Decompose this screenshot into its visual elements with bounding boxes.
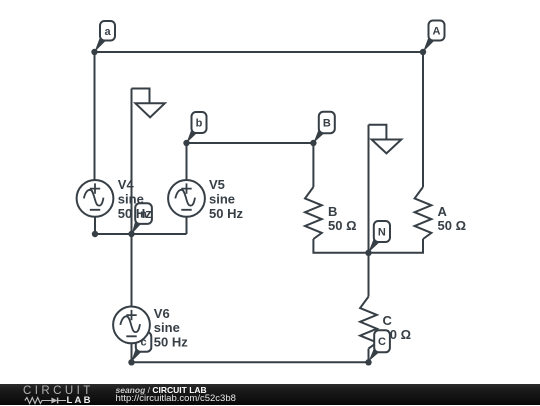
svg-text:C: C <box>383 313 393 328</box>
node flag a <box>95 21 116 52</box>
svg-text:B: B <box>323 118 331 130</box>
svg-text:sine: sine <box>209 192 235 207</box>
voltage source V6 <box>113 307 150 344</box>
junction V4-neutral <box>92 231 98 237</box>
junction n <box>128 231 134 237</box>
wire a to V4 <box>94 52 96 180</box>
ground G1 <box>132 89 165 118</box>
svg-text:sine: sine <box>118 192 144 207</box>
resistor B <box>305 187 322 239</box>
label resistor B value <box>328 204 357 233</box>
node flag N <box>368 221 390 253</box>
wire resistor C bottom <box>368 349 370 363</box>
voltage source V5 <box>168 180 205 217</box>
CircuitLab logo <box>23 385 94 397</box>
wire V6 bottom <box>131 343 133 362</box>
node flag B <box>313 112 334 143</box>
label resistor C value <box>383 313 412 342</box>
wire B to resistor B <box>312 143 314 187</box>
wire V5 bottom <box>186 217 188 234</box>
resistor A <box>415 187 432 239</box>
label V5 <box>209 177 243 221</box>
voltage source V4 <box>77 180 114 217</box>
label resistor A value <box>438 204 467 233</box>
wire neutral horizontal <box>95 233 187 235</box>
svg-text:a: a <box>104 26 111 38</box>
junction A <box>420 49 426 55</box>
node flag c <box>131 332 151 362</box>
svg-text:b: b <box>196 118 203 130</box>
junction B <box>310 140 316 146</box>
ground G2 <box>369 125 402 154</box>
wire resistor B bottom <box>313 239 368 253</box>
svg-text:50 Hz: 50 Hz <box>154 334 188 349</box>
svg-text:V5: V5 <box>209 177 225 192</box>
wire neutral to V6 <box>131 234 133 307</box>
wire b-B <box>187 142 314 144</box>
svg-text:V6: V6 <box>154 306 170 321</box>
svg-text:N: N <box>378 227 386 239</box>
wire N to resistor C <box>368 253 370 297</box>
wire b to V5 <box>186 143 188 180</box>
wire resistor A bottom <box>369 239 424 253</box>
node flag A <box>423 21 445 53</box>
node flag C <box>369 330 390 361</box>
junction N <box>365 250 371 256</box>
node flag b <box>187 112 207 143</box>
svg-text:V4: V4 <box>118 177 135 192</box>
wire ground1 stem <box>131 89 133 235</box>
svg-text:sine: sine <box>154 320 180 335</box>
node flag n <box>132 203 152 234</box>
junction c <box>128 359 134 365</box>
junction a <box>91 49 97 55</box>
wire bottom c-C <box>132 361 369 363</box>
svg-text:B: B <box>328 204 337 219</box>
wire A to resistor A <box>422 52 424 187</box>
junction C <box>365 359 371 365</box>
label V6 <box>154 306 188 350</box>
junction b <box>183 140 189 146</box>
svg-text:50 Hz: 50 Hz <box>118 206 152 221</box>
svg-text:50 Ω: 50 Ω <box>328 218 357 233</box>
wire top a-A <box>95 51 424 53</box>
wire V4 bottom to neutral <box>94 217 96 234</box>
wire ground2 stem <box>368 125 370 253</box>
svg-text:50 Hz: 50 Hz <box>209 206 243 221</box>
svg-text:C: C <box>378 336 386 348</box>
svg-text:A: A <box>433 26 441 38</box>
label V4 <box>118 177 152 221</box>
svg-text:50 Ω: 50 Ω <box>438 218 467 233</box>
footer bar <box>0 384 540 406</box>
resistor C <box>360 297 377 349</box>
svg-text:A: A <box>438 204 448 219</box>
